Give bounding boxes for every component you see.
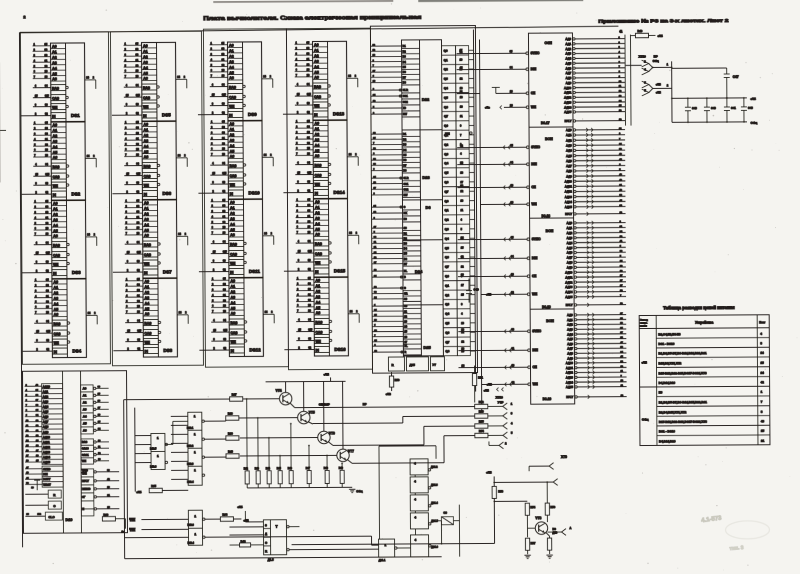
svg-text:АД10: АД10 bbox=[566, 361, 574, 365]
svg-text:VT7: VT7 bbox=[348, 449, 354, 453]
svg-text:АД5: АД5 bbox=[567, 246, 573, 250]
svg-text:АД14: АД14 bbox=[565, 290, 573, 294]
svg-text:D15,D8,ХТ1,ХТ2: D15,D8,ХТ1,ХТ2 bbox=[658, 361, 681, 365]
svg-text:R57: R57 bbox=[531, 541, 536, 545]
svg-text:АД13: АД13 bbox=[566, 375, 574, 379]
svg-text:15: 15 bbox=[761, 429, 765, 433]
svg-text:АД10: АД10 bbox=[564, 86, 572, 90]
svg-text:+5в: +5в bbox=[485, 105, 490, 109]
svg-text:АД14: АД14 bbox=[565, 200, 573, 204]
svg-text:АД3: АД3 bbox=[567, 327, 573, 331]
svg-text:Устройства: Устройства bbox=[695, 321, 713, 325]
svg-text:DK: DK bbox=[404, 212, 408, 215]
svg-text:Q4: Q4 bbox=[444, 161, 448, 165]
svg-text:42: 42 bbox=[761, 380, 765, 384]
svg-text:A0: A0 bbox=[83, 387, 87, 391]
svg-text:21: 21 bbox=[761, 439, 765, 443]
svg-text:R37: R37 bbox=[232, 392, 237, 396]
svg-text:R35: R35 bbox=[151, 484, 156, 488]
svg-text:Q7: Q7 bbox=[445, 340, 449, 344]
svg-text:24: 24 bbox=[761, 371, 765, 375]
svg-text:Q5: Q5 bbox=[445, 246, 449, 250]
svg-text:B: B bbox=[404, 276, 406, 279]
svg-text:Q1: Q1 bbox=[445, 208, 449, 212]
svg-text:D24: D24 bbox=[415, 269, 423, 274]
svg-text:АД5: АД5 bbox=[567, 337, 573, 341]
svg-text:D20.2: D20.2 bbox=[187, 445, 194, 448]
svg-text:АД14: АД14 bbox=[43, 455, 50, 459]
svg-text:Q6: Q6 bbox=[444, 105, 448, 109]
svg-text:EW: EW bbox=[403, 113, 408, 116]
svg-text:АД1: АД1 bbox=[567, 318, 573, 322]
svg-text:CS1: CS1 bbox=[403, 95, 408, 98]
svg-text:A6: A6 bbox=[83, 429, 87, 433]
svg-text:Q3: Q3 bbox=[444, 152, 448, 156]
svg-text:DS12: DS12 bbox=[249, 347, 261, 352]
svg-text:Q3: Q3 bbox=[444, 77, 448, 81]
svg-text:DS3: DS3 bbox=[72, 270, 81, 275]
svg-text:R42: R42 bbox=[244, 467, 249, 470]
svg-text:тип. 3: тип. 3 bbox=[729, 545, 744, 552]
svg-text:D13.6: D13.6 bbox=[150, 465, 157, 468]
svg-text:АД13: АД13 bbox=[43, 450, 50, 454]
svg-text:D22: D22 bbox=[422, 97, 430, 102]
svg-text:ТИ2: ТИ2 bbox=[129, 528, 135, 532]
svg-text:RPLY: RPLY bbox=[82, 479, 89, 483]
svg-text:DS11: DS11 bbox=[249, 269, 261, 274]
svg-text:Д21.1: Д21.1 bbox=[379, 559, 386, 562]
svg-text:Q2: Q2 bbox=[445, 218, 449, 222]
svg-text:RAS: RAS bbox=[82, 441, 88, 444]
svg-text:АД0: АД0 bbox=[565, 37, 571, 41]
svg-text:АД6: АД6 bbox=[567, 342, 573, 346]
svg-text:DS1: DS1 bbox=[71, 113, 80, 118]
svg-text:R48: R48 bbox=[324, 467, 329, 470]
svg-text:R30: R30 bbox=[103, 513, 108, 517]
svg-text:SYNC: SYNC bbox=[43, 467, 50, 471]
svg-text:ВОН: ВОН bbox=[545, 137, 553, 141]
svg-text:D2,D4,D15,ХТ1,ХТ2: D2,D4,D15,ХТ1,ХТ2 bbox=[659, 410, 687, 414]
svg-text:АД4: АД4 bbox=[567, 241, 573, 245]
svg-text:DS16: DS16 bbox=[334, 347, 346, 352]
svg-text:Д25: Д25 bbox=[409, 363, 415, 367]
svg-text:Q4: Q4 bbox=[444, 86, 448, 90]
svg-text:CE: CE bbox=[532, 274, 536, 278]
svg-text:R43: R43 bbox=[255, 467, 260, 470]
svg-text:DS9: DS9 bbox=[248, 112, 257, 117]
svg-text:АД11: АД11 bbox=[565, 184, 573, 188]
svg-text:АД8: АД8 bbox=[43, 425, 49, 429]
svg-text:CE: CE bbox=[532, 365, 536, 369]
svg-text:WE: WE bbox=[532, 292, 537, 296]
svg-text:Д1.5: Д1.5 bbox=[268, 558, 274, 562]
svg-text:С40: С40 bbox=[711, 106, 716, 110]
svg-text:SYNC: SYNC bbox=[532, 329, 542, 333]
svg-text:Q1: Q1 bbox=[444, 58, 448, 62]
svg-text:D20.1: D20.1 bbox=[187, 427, 194, 430]
svg-text:D6: D6 bbox=[425, 205, 431, 210]
svg-text:АД1: АД1 bbox=[566, 226, 572, 230]
svg-text:VT8: VT8 bbox=[535, 516, 541, 520]
svg-text:Q1: Q1 bbox=[445, 284, 449, 288]
svg-text:A2: A2 bbox=[83, 401, 87, 405]
svg-text:DS14: DS14 bbox=[333, 190, 345, 195]
svg-text:SYNC: SYNC bbox=[531, 145, 541, 149]
svg-text:R44: R44 bbox=[241, 540, 246, 544]
svg-text:CS2: CS2 bbox=[403, 188, 408, 191]
svg-text:С43: С43 bbox=[748, 106, 753, 110]
svg-text:R48: R48 bbox=[228, 449, 233, 453]
svg-text:АД10: АД10 bbox=[565, 270, 573, 274]
svg-text:R34: R34 bbox=[222, 512, 227, 516]
svg-text:R56: R56 bbox=[498, 489, 503, 493]
svg-text:BINCD: BINCD bbox=[82, 487, 90, 491]
svg-text:АД15: АД15 bbox=[43, 460, 50, 464]
svg-text:Q6: Q6 bbox=[444, 180, 448, 184]
svg-text:АД7: АД7 bbox=[566, 71, 572, 75]
svg-text:ОЗН: ОЗН bbox=[545, 41, 553, 45]
svg-text:DS13: DS13 bbox=[333, 111, 345, 116]
svg-text:D13.5: D13.5 bbox=[150, 447, 157, 450]
svg-text:АД6: АД6 bbox=[43, 415, 49, 419]
svg-text:DIN: DIN bbox=[531, 67, 537, 71]
svg-text:15: 15 bbox=[760, 361, 764, 365]
svg-text:D9.18: D9.18 bbox=[542, 214, 551, 218]
svg-text:C: C bbox=[404, 206, 406, 209]
svg-text:CAS0: CAS0 bbox=[82, 447, 89, 450]
svg-text:DIN: DIN bbox=[43, 472, 48, 476]
svg-text:Д21.6: Д21.6 bbox=[431, 546, 438, 549]
svg-text:АД14: АД14 bbox=[564, 105, 572, 109]
svg-text:АД12: АД12 bbox=[564, 95, 572, 99]
svg-text:АД10: АД10 bbox=[43, 435, 50, 439]
svg-text:D9.20: D9.20 bbox=[543, 397, 552, 401]
svg-text:R55: R55 bbox=[479, 419, 484, 423]
svg-text:RPLY: RPLY bbox=[566, 303, 573, 307]
svg-text:АД13: АД13 bbox=[565, 195, 573, 199]
svg-text:Q6: Q6 bbox=[445, 331, 449, 335]
svg-text:АД7: АД7 bbox=[43, 420, 49, 424]
svg-text:АД3: АД3 bbox=[43, 400, 49, 404]
svg-text:EW: EW bbox=[403, 194, 408, 197]
svg-text:DS7: DS7 bbox=[163, 269, 172, 274]
svg-text:С47: С47 bbox=[733, 75, 739, 79]
svg-text:+5Б: +5Б bbox=[486, 470, 492, 474]
svg-text:АД11: АД11 bbox=[566, 366, 574, 370]
svg-text:SR: SR bbox=[404, 293, 408, 296]
svg-text:АД2: АД2 bbox=[565, 47, 571, 51]
svg-text:RPLY: RPLY bbox=[565, 119, 572, 123]
svg-text:VT4: VT4 bbox=[276, 389, 282, 393]
svg-text:+5Б: +5Б bbox=[750, 97, 756, 101]
svg-text:Д21.4: Д21.4 bbox=[431, 502, 438, 505]
svg-text:АД2: АД2 bbox=[566, 231, 572, 235]
svg-text:A3: A3 bbox=[83, 408, 87, 412]
svg-text:С48: С48 bbox=[692, 106, 697, 110]
svg-text:VT6: VT6 bbox=[329, 431, 335, 435]
svg-text:R51: R51 bbox=[478, 375, 483, 379]
svg-text:R47: R47 bbox=[306, 467, 311, 470]
svg-text:+5Б: +5Б bbox=[487, 382, 492, 386]
svg-text:A1: A1 bbox=[83, 394, 87, 398]
svg-text:C: C bbox=[404, 287, 406, 290]
svg-text:Q0: Q0 bbox=[444, 199, 448, 203]
svg-text:Таблица разводки цепей пита: Таблица разводки цепей питания bbox=[663, 305, 735, 310]
svg-text:Общ: Общ bbox=[356, 489, 363, 493]
svg-text:+5Б: +5Б bbox=[324, 372, 330, 376]
svg-text:АД5: АД5 bbox=[565, 61, 571, 65]
svg-text:Общ: Общ bbox=[750, 121, 757, 125]
svg-text:ВОН: ВОН bbox=[546, 319, 554, 323]
svg-text:DIN: DIN bbox=[531, 162, 537, 166]
svg-text:R52: R52 bbox=[479, 400, 484, 404]
svg-text:АД15: АД15 bbox=[566, 385, 574, 389]
svg-text:WRST: WRST bbox=[43, 483, 51, 487]
svg-text:АД4: АД4 bbox=[567, 332, 573, 336]
svg-text:Q5: Q5 bbox=[444, 171, 448, 175]
svg-text:CLR: CLR bbox=[403, 89, 408, 92]
svg-text:+5Б: +5Б bbox=[237, 505, 242, 509]
svg-text:АД12: АД12 bbox=[566, 371, 574, 375]
svg-text:АД13: АД13 bbox=[564, 100, 572, 104]
svg-text:АД12: АД12 bbox=[565, 190, 573, 194]
svg-text:ХТ10: ХТ10 bbox=[496, 395, 504, 399]
svg-text:Q0: Q0 bbox=[444, 49, 448, 53]
svg-text:WE: WE bbox=[531, 105, 536, 109]
svg-text:VT5: VT5 bbox=[309, 411, 315, 415]
svg-text:43: 43 bbox=[761, 419, 765, 423]
svg-text:Е3: Е3 bbox=[659, 391, 663, 395]
svg-text:+5Б: +5Б bbox=[656, 90, 661, 94]
svg-text:WTI: WTI bbox=[82, 473, 87, 476]
svg-text:SYNC: SYNC bbox=[531, 51, 541, 55]
svg-text:Д21.5: Д21.5 bbox=[431, 520, 438, 523]
svg-text:DS15: DS15 bbox=[334, 268, 346, 273]
svg-text:АД3: АД3 bbox=[567, 236, 573, 240]
svg-text:CS1: CS1 bbox=[403, 183, 408, 186]
svg-text:АД0: АД0 bbox=[566, 128, 572, 132]
svg-text:Q0: Q0 bbox=[445, 349, 449, 353]
svg-text:Q5: Q5 bbox=[445, 321, 449, 325]
svg-text:D2,С4,Е2,Е4-Е8: D2,С4,Е2,Е4-Е8 bbox=[658, 332, 681, 336]
svg-text:R49: R49 bbox=[339, 467, 344, 470]
svg-text:D1,D3,D5-D7,D9-D14,D13,D20,D21: D1,D3,D5-D7,D9-D14,D13,D20,D21 bbox=[658, 351, 707, 355]
svg-text:R58: R58 bbox=[550, 505, 555, 509]
svg-text:Q2: Q2 bbox=[444, 67, 448, 71]
svg-text:R36: R36 bbox=[228, 411, 233, 415]
svg-text:A5: A5 bbox=[83, 422, 87, 426]
svg-text:АД11: АД11 bbox=[565, 275, 573, 279]
svg-text:Q3: Q3 bbox=[445, 227, 449, 231]
svg-text:ТИ2: ТИ2 bbox=[129, 518, 135, 522]
svg-text:АД6: АД6 bbox=[566, 159, 572, 163]
svg-text:D23: D23 bbox=[422, 175, 430, 180]
svg-text:АД3: АД3 bbox=[566, 143, 572, 147]
svg-text:Q0: Q0 bbox=[445, 274, 449, 278]
svg-text:WE: WE bbox=[82, 460, 86, 463]
svg-text:D25: D25 bbox=[423, 345, 431, 350]
svg-text:DS2: DS2 bbox=[71, 191, 80, 196]
svg-text:R30: R30 bbox=[228, 431, 233, 435]
svg-text:ХТ9: ХТ9 bbox=[561, 455, 567, 459]
svg-text:АД6: АД6 bbox=[567, 251, 573, 255]
svg-text:Вывод: Вывод bbox=[640, 319, 648, 321]
svg-text:R49: R49 bbox=[637, 29, 642, 33]
svg-text:АД4: АД4 bbox=[565, 57, 571, 61]
svg-text:R54: R54 bbox=[530, 505, 535, 509]
svg-text:ВОН: ВОН bbox=[546, 229, 554, 233]
svg-text:WE: WE bbox=[531, 202, 536, 206]
svg-text:АД9: АД9 bbox=[567, 265, 573, 269]
svg-text:АД0: АД0 bbox=[566, 221, 572, 225]
svg-text:АД4: АД4 bbox=[43, 405, 49, 409]
svg-text:+5Б: +5Б bbox=[136, 490, 141, 494]
svg-text:D19: D19 bbox=[65, 518, 72, 522]
svg-text:АД11: АД11 bbox=[564, 91, 572, 95]
svg-text:DS1 - DS16: DS1 - DS16 bbox=[659, 430, 675, 434]
svg-text:АД15: АД15 bbox=[564, 110, 572, 114]
svg-text:АД9: АД9 bbox=[566, 174, 572, 178]
svg-text:Q0: Q0 bbox=[444, 124, 448, 128]
svg-text:R45: R45 bbox=[277, 467, 282, 470]
svg-text:АД1: АД1 bbox=[566, 133, 572, 137]
svg-text:Q2: Q2 bbox=[444, 143, 448, 147]
svg-text:Общ: Общ bbox=[653, 59, 660, 63]
svg-text:С41: С41 bbox=[731, 106, 736, 110]
svg-text:+5Б: +5Б bbox=[484, 388, 489, 392]
svg-text:АД0: АД0 bbox=[567, 313, 573, 317]
svg-text:Приложение № Р3 на 3-х: Приложение № Р3 на 3-х листах. Лист 2 bbox=[598, 18, 728, 25]
svg-text:напря-: напря- bbox=[640, 322, 647, 324]
svg-text:АД7: АД7 bbox=[567, 256, 573, 260]
svg-text:DS5: DS5 bbox=[162, 112, 171, 117]
svg-text:АД7: АД7 bbox=[566, 164, 572, 168]
svg-text:R50: R50 bbox=[395, 378, 400, 382]
svg-text:ВР: ВР bbox=[363, 402, 367, 406]
svg-text:АД15: АД15 bbox=[565, 295, 573, 299]
svg-text:АД2: АД2 bbox=[43, 395, 49, 399]
svg-text:АД2: АД2 bbox=[567, 323, 573, 327]
svg-text:АД8: АД8 bbox=[566, 76, 572, 80]
svg-text:D20.3: D20.3 bbox=[187, 463, 194, 466]
svg-text:+5Б: +5Б bbox=[641, 360, 647, 364]
svg-text:Д: Д bbox=[265, 532, 267, 536]
svg-text:+5Б: +5Б bbox=[656, 82, 661, 86]
svg-text:Конт: Конт bbox=[759, 320, 766, 324]
svg-text:DS6: DS6 bbox=[162, 191, 171, 196]
svg-text:D15-D18,D22-D25,DS17-DS22,ХТ8: D15-D18,D22-D25,DS17-DS22,ХТ8 bbox=[659, 371, 707, 375]
svg-text:АД9: АД9 bbox=[43, 430, 49, 434]
svg-text:Q5: Q5 bbox=[444, 96, 448, 100]
svg-text:RPLY: RPLY bbox=[565, 212, 572, 216]
svg-text:АДД0: АДД0 bbox=[43, 384, 51, 388]
svg-text:УТР: УТР bbox=[498, 400, 504, 404]
svg-text:R: R bbox=[265, 549, 267, 553]
svg-text:DS1 - DS16: DS1 - DS16 bbox=[658, 342, 674, 346]
svg-text:DS10: DS10 bbox=[248, 190, 260, 195]
svg-text:Q4: Q4 bbox=[445, 312, 449, 316]
svg-text:CLC: CLC bbox=[48, 515, 55, 519]
svg-text:R46: R46 bbox=[288, 467, 293, 470]
svg-text:DOVT: DOVT bbox=[43, 477, 51, 481]
svg-text:D9.19: D9.19 bbox=[542, 305, 551, 309]
svg-text:RPLY: RPLY bbox=[566, 395, 573, 399]
svg-text:АД1: АД1 bbox=[565, 42, 571, 46]
svg-text:R: R bbox=[404, 351, 406, 354]
svg-text:DIN: DIN bbox=[532, 348, 538, 352]
svg-text:Q6: Q6 bbox=[445, 255, 449, 259]
svg-text:Q7: Q7 bbox=[445, 265, 449, 269]
svg-text:Q3: Q3 bbox=[445, 302, 449, 306]
svg-text:Q7: Q7 bbox=[444, 190, 448, 194]
svg-text:АД4: АД4 bbox=[566, 149, 572, 153]
svg-text:АД2: АД2 bbox=[566, 138, 572, 142]
svg-text:АД6: АД6 bbox=[565, 66, 571, 70]
svg-text:WE: WE bbox=[533, 382, 538, 386]
svg-text:D20.4: D20.4 bbox=[187, 481, 194, 484]
svg-text:АД1: АД1 bbox=[43, 390, 49, 394]
svg-text:CLR: CLR bbox=[403, 177, 408, 180]
svg-text:АД8: АД8 bbox=[567, 351, 573, 355]
svg-text:Q7: Q7 bbox=[444, 114, 448, 118]
svg-text:Д21.3: Д21.3 bbox=[431, 484, 438, 487]
svg-text:D13.4: D13.4 bbox=[188, 542, 195, 545]
svg-text:Общ: Общ bbox=[642, 417, 649, 421]
svg-text:S: S bbox=[265, 523, 267, 527]
svg-text:CAS1: CAS1 bbox=[82, 454, 89, 457]
svg-text:А: А bbox=[569, 526, 571, 530]
svg-text:АД13: АД13 bbox=[565, 285, 573, 289]
svg-text:D15-D18,D22-D23,DS17-DS20,ХТ8: D15-D18,D22-D23,DS17-DS20,ХТ8 bbox=[659, 420, 707, 424]
svg-text:АД12: АД12 bbox=[43, 445, 50, 449]
svg-text:D4,D14,D19: D4,D14,D19 bbox=[659, 439, 676, 443]
svg-text:CE: CE bbox=[531, 185, 535, 189]
svg-text:+5Б: +5Б bbox=[486, 292, 491, 296]
svg-text:АД14: АД14 bbox=[566, 380, 574, 384]
svg-text:Д21.2: Д21.2 bbox=[431, 466, 438, 469]
svg-text:АД8: АД8 bbox=[566, 169, 572, 173]
svg-text:14: 14 bbox=[760, 351, 764, 355]
svg-text:АД9: АД9 bbox=[566, 81, 572, 85]
svg-text:CE: CE bbox=[531, 91, 535, 95]
svg-text:АД7: АД7 bbox=[567, 347, 573, 351]
svg-text:АД3: АД3 bbox=[565, 52, 571, 56]
svg-text:D13.3: D13.3 bbox=[187, 524, 194, 527]
svg-text:Q4: Q4 bbox=[445, 237, 449, 241]
svg-text:R44: R44 bbox=[266, 467, 271, 470]
svg-text:+5Б: +5Б bbox=[657, 34, 662, 38]
svg-text:A4: A4 bbox=[83, 415, 87, 419]
svg-text:АД12: АД12 bbox=[565, 280, 573, 284]
svg-text:INE: INE bbox=[445, 132, 450, 136]
svg-text:Q2: Q2 bbox=[445, 293, 449, 297]
svg-text:DIN: DIN bbox=[532, 256, 538, 260]
svg-text:DS4: DS4 bbox=[72, 348, 81, 353]
svg-text:+5B: +5B bbox=[386, 392, 391, 396]
svg-text:ОМФ2Р: ОМФ2Р bbox=[319, 402, 330, 406]
svg-text:R53: R53 bbox=[479, 409, 484, 413]
svg-text:АД11: АД11 bbox=[43, 440, 50, 444]
svg-text:АД9: АД9 bbox=[567, 356, 573, 360]
svg-text:жения: жения bbox=[639, 325, 647, 327]
svg-text:C: C bbox=[265, 541, 267, 545]
svg-text:АД8: АД8 bbox=[567, 260, 573, 264]
svg-text:R54: R54 bbox=[479, 429, 484, 433]
svg-text:АД15: АД15 bbox=[565, 205, 573, 209]
svg-text:ВР: ВР bbox=[654, 54, 658, 58]
svg-text:DL: DL bbox=[404, 345, 408, 348]
svg-text:С9: С9 bbox=[443, 511, 447, 515]
